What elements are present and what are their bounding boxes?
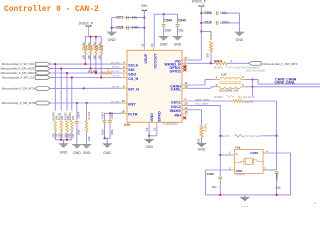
svg-text:R1263: R1263 [209, 31, 213, 40]
svg-text:U96: U96 [124, 123, 131, 127]
svg-text:VSUP: VSUP [144, 53, 148, 63]
svg-text:150n: 150n [100, 129, 104, 135]
svg-text:CAN0_CANL: CAN0_CANL [275, 81, 296, 85]
svg-text:SPI_RST: SPI_RST [111, 101, 120, 103]
svg-text:C626: C626 [207, 172, 215, 176]
svg-text:GND: GND [83, 151, 91, 155]
svg-text:Microcontroller_F_SPI_MOSI: Microcontroller_F_SPI_MOSI [1, 67, 35, 71]
svg-text:GND: GND [60, 151, 68, 155]
svg-text:Microcontroller_F_SPI_CS0: Microcontroller_F_SPI_CS0 [2, 76, 35, 80]
svg-text:SPI_CS: SPI_CS [112, 76, 120, 78]
svg-text:OSC1: OSC1 [171, 100, 181, 104]
svg-text:GND: GND [241, 206, 249, 207]
svg-text:VCCOUT: VCCOUT [153, 53, 157, 69]
svg-text:R1256: R1256 [87, 111, 91, 119]
svg-text:R1346: R1346 [88, 69, 97, 73]
svg-text:R3901: R3901 [214, 66, 223, 70]
svg-text:L37: L37 [221, 72, 227, 76]
svg-text:R1971: R1971 [203, 123, 207, 132]
svg-text:SPI_SCK: SPI_SCK [111, 62, 120, 64]
svg-text:R1272: R1272 [221, 134, 230, 138]
svg-text:(Do Not Stuff): (Do Not Stuff) [247, 69, 265, 73]
svg-text:GND: GND [108, 38, 116, 42]
svg-text:EPAD: EPAD [158, 111, 162, 122]
svg-text:GPIO2: GPIO2 [170, 69, 181, 73]
svg-text:SDO: SDO [128, 72, 136, 76]
svg-text:GND: GND [174, 42, 182, 46]
svg-text:C628: C628 [116, 26, 124, 30]
svg-text:CANcontroller_F_SPI_INT0: CANcontroller_F_SPI_INT0 [262, 62, 298, 66]
svg-text:SCH5485-102: SCH5485-102 [219, 88, 238, 92]
svg-text:GND1: GND1 [250, 151, 259, 155]
svg-text:10K: 10K [87, 136, 91, 141]
svg-text:Controller 0 - CAN-2: Controller 0 - CAN-2 [4, 5, 99, 14]
svg-text:3V3OC_P: 3V3OC_P [79, 21, 93, 25]
svg-text:C624: C624 [77, 111, 81, 118]
svg-text:R3902: R3902 [214, 95, 223, 99]
svg-text:Microcontroller_F_SPI_INT0: Microcontroller_F_SPI_INT0 [2, 101, 35, 105]
svg-text:GND: GND [145, 145, 153, 149]
svg-text:C945: C945 [178, 19, 186, 23]
svg-text:VIN: VIN [141, 4, 147, 8]
svg-text:16: 16 [150, 43, 154, 47]
svg-text:SCLK: SCLK [128, 64, 138, 68]
svg-text:10u: 10u [178, 29, 184, 33]
svg-text:GND: GND [73, 151, 81, 155]
svg-text:C966: C966 [204, 11, 212, 15]
svg-text:Y16: Y16 [235, 146, 241, 150]
svg-text:INT_N: INT_N [128, 88, 139, 92]
svg-text:C914: C914 [100, 112, 104, 119]
svg-text:C916: C916 [110, 112, 114, 119]
svg-text:GND: GND [103, 151, 111, 155]
svg-text:100n: 100n [164, 29, 171, 33]
svg-text:10u: 10u [222, 11, 228, 15]
svg-text:GND: GND [236, 38, 244, 42]
svg-text:100n: 100n [132, 26, 139, 30]
svg-text:10K: 10K [197, 138, 201, 143]
svg-text:C949: C949 [164, 19, 172, 23]
svg-text:3V3OC_P: 3V3OC_P [192, 0, 206, 4]
svg-text:C628: C628 [204, 21, 212, 25]
svg-text:14: 14 [140, 43, 144, 47]
svg-text:100n: 100n [222, 21, 229, 25]
svg-text:FLTR: FLTR [128, 113, 137, 117]
svg-text:21: 21 [153, 127, 157, 131]
svg-text:18: 18 [121, 110, 125, 114]
svg-text:19: 19 [121, 99, 125, 103]
svg-text:10p: 10p [275, 186, 280, 190]
svg-text:13: 13 [145, 127, 149, 131]
svg-text:SPI_SDO: SPI_SDO [111, 71, 120, 73]
svg-text:C625: C625 [275, 173, 279, 180]
svg-text:150n: 150n [110, 129, 114, 135]
svg-text:150n: 150n [77, 129, 81, 135]
svg-text:GND: GND [150, 113, 154, 122]
svg-text:CS_N: CS_N [128, 77, 138, 81]
svg-text:10: 10 [184, 85, 188, 89]
svg-text:10p: 10p [211, 185, 216, 189]
svg-text:Do Not Stuff: Do Not Stuff [238, 95, 254, 99]
svg-text:Microcontroller_F_SPI_SCK: Microcontroller_F_SPI_SCK [2, 62, 35, 66]
svg-text:10K: 10K [71, 115, 75, 120]
svg-text:R3901: R3901 [214, 59, 223, 63]
svg-text:10u: 10u [132, 16, 138, 20]
svg-text:OSC2: OSC2 [171, 105, 181, 109]
svg-text:RST: RST [128, 102, 136, 106]
svg-text:10K: 10K [206, 53, 210, 58]
svg-text:Microcontroller_F_SPI_INT1: Microcontroller_F_SPI_INT1 [2, 87, 35, 91]
svg-text:GND: GND [160, 42, 168, 46]
svg-text:TCAN4550: TCAN4550 [162, 122, 178, 126]
svg-text:SDI: SDI [128, 68, 134, 72]
svg-text:40MHz: 40MHz [236, 173, 246, 177]
svg-text:GND: GND [198, 148, 206, 152]
svg-text:Microcontroller_F_SPI_MISO: Microcontroller_F_SPI_MISO [1, 71, 35, 75]
svg-text:SPI_SDI: SPI_SDI [112, 67, 120, 69]
svg-text:SPI_INT: SPI_INT [112, 87, 120, 89]
svg-text:C673: C673 [116, 16, 124, 20]
svg-text:Do Not Stuff: Do Not Stuff [245, 134, 261, 138]
svg-text:CANL: CANL [171, 88, 182, 92]
svg-text:20: 20 [184, 102, 188, 106]
svg-text:INH: INH [174, 113, 181, 117]
svg-text:15: 15 [184, 110, 188, 114]
